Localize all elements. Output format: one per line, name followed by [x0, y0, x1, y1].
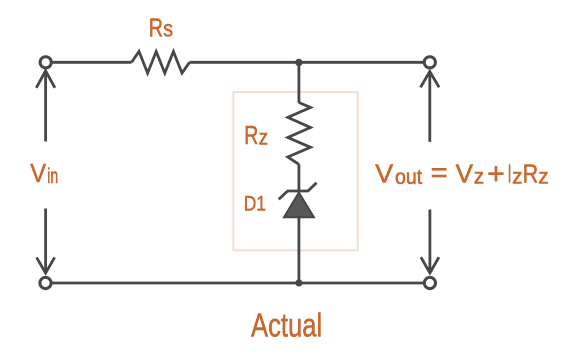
Vout measure line upper with up arrow: [421, 72, 440, 142]
node junction bottom: [295, 279, 302, 286]
svg-text:R: R: [149, 13, 163, 43]
svg-text:z: z: [538, 165, 548, 188]
svg-text:R: R: [523, 158, 539, 188]
bottom wire: [51, 282, 424, 285]
svg-text:z: z: [512, 165, 522, 188]
node junction top: [295, 59, 302, 66]
caption Actual: [251, 306, 322, 343]
terminal top-left: [40, 57, 51, 68]
svg-text:z: z: [474, 165, 484, 188]
terminal top-right: [424, 57, 435, 68]
Vout measure line lower with down arrow: [421, 210, 439, 273]
wire Rz to D1: [297, 164, 300, 191]
zener diode D1 triangle: [284, 193, 314, 218]
terminal bottom-left: [40, 277, 51, 288]
label Vin: [30, 158, 58, 188]
label Vout = Vz + IzRz: [375, 158, 548, 189]
svg-text:I: I: [508, 158, 512, 188]
terminal bottom-right: [424, 277, 435, 288]
label Rz: [244, 120, 268, 150]
svg-text:z: z: [259, 126, 268, 149]
svg-text:V: V: [456, 158, 474, 188]
svg-text:D1: D1: [244, 191, 266, 215]
wire top-left to Rs: [52, 61, 132, 64]
wire top junction down to Rz: [297, 63, 300, 103]
highlight box around Rz and D1: [233, 92, 357, 250]
svg-text:R: R: [244, 120, 258, 150]
zener diode D1 cathode bar: [279, 183, 317, 200]
label D1: [244, 191, 266, 215]
wire D1 to bottom junction: [297, 217, 300, 283]
resistor Rs: [132, 52, 190, 74]
svg-text:s: s: [163, 16, 173, 42]
resistor Rz: [288, 103, 311, 165]
svg-text:in: in: [47, 165, 58, 188]
Vin measure line lower with down arrow: [37, 209, 55, 274]
wire Rs to top-right: [190, 61, 425, 64]
svg-text:Actual: Actual: [251, 306, 322, 343]
label Rs: [149, 13, 173, 43]
svg-text:out: out: [395, 166, 422, 189]
Vin measure line upper with up arrow: [36, 71, 55, 142]
svg-text:V: V: [30, 158, 46, 188]
svg-text:V: V: [375, 158, 394, 188]
